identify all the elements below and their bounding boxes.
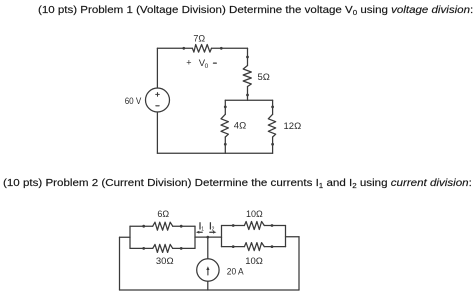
svg-text:10Ω: 10Ω: [245, 256, 263, 267]
wire: left lead into left block: [120, 236, 131, 238]
voltage source 60V circle: [146, 88, 170, 112]
node dot left block top-left: [142, 225, 145, 228]
node dot right block bottom-right: [271, 245, 274, 248]
wire: 12ohm branch bottom lead: [272, 137, 274, 153]
resistor R=6ohm zigzag: [153, 222, 173, 230]
resistor R=10ohm bottom zigzag: [244, 243, 264, 251]
wire: left block top edge right: [173, 225, 195, 227]
plus sign inside source: [157, 93, 159, 97]
current arrow I2 (right): [210, 231, 215, 233]
wire: left block right edge: [194, 226, 196, 248]
node dot 12ohm bottom: [271, 143, 274, 146]
node dot on top rail right of 7ohm: [220, 47, 223, 50]
wire: left block bottom edge left: [130, 247, 153, 249]
wire: top rail right segment: [212, 47, 248, 49]
resistor R=10ohm top zigzag: [244, 222, 264, 230]
wire: left block bottom edge right: [173, 247, 195, 249]
wire: right block top edge left: [222, 225, 245, 227]
wire: bottom rail: [157, 152, 272, 154]
node dot left block bottom-left: [142, 247, 145, 250]
current label I2 stroke: [209, 223, 211, 229]
wire: middle node horizontal: [195, 236, 222, 238]
svg-text:6Ω: 6Ω: [157, 209, 169, 219]
wire: right block bottom edge left: [222, 246, 245, 248]
svg-text:0: 0: [205, 63, 209, 70]
resistor R=5ohm zigzag: [243, 66, 251, 87]
svg-text:5Ω: 5Ω: [258, 72, 270, 83]
svg-text:60 V: 60 V: [125, 96, 142, 106]
node dot on right vertical: [246, 56, 249, 59]
wire: bottom rail: [120, 289, 300, 291]
current source 20A circle: [197, 259, 219, 281]
node dot on top rail left of 7ohm: [182, 47, 185, 50]
svg-text:4Ω: 4Ω: [234, 121, 246, 132]
wire: right vertical top (to 5ohm): [247, 48, 249, 65]
current source arrow (up): [207, 269, 209, 275]
svg-text:30Ω: 30Ω: [156, 256, 174, 267]
wire: right block right edge: [285, 226, 287, 247]
wire: right outer vertical: [298, 237, 300, 290]
node dot left block top-right: [180, 225, 183, 228]
wire: right lead out of right block: [286, 236, 300, 238]
wire: left vertical below source: [156, 112, 158, 153]
wire: right vertical below 5ohm to node: [247, 87, 249, 101]
wire: right block top edge right: [264, 225, 285, 227]
node dot right block top-left: [232, 224, 235, 227]
wire: left block left edge: [129, 226, 131, 248]
current arrow I1 (left): [198, 231, 203, 233]
wire: left block top edge left: [130, 225, 153, 227]
resistor R=30ohm zigzag: [153, 244, 173, 252]
svg-text:12Ω: 12Ω: [284, 121, 302, 132]
node dot 4ohm bottom: [224, 143, 227, 146]
wire: right block bottom edge right: [264, 246, 285, 248]
svg-text:20 A: 20 A: [227, 267, 244, 278]
wire: left vertical above source: [156, 48, 158, 88]
wire: current source bottom lead: [207, 281, 209, 290]
resistor R=7ohm zigzag: [192, 45, 211, 53]
svg-text:7Ω: 7Ω: [193, 34, 205, 44]
wire: 12ohm branch top lead: [272, 100, 274, 114]
header line problem 1: [38, 6, 473, 16]
resistor R=12ohm zigzag: [268, 114, 275, 137]
node dot left block bottom-right: [180, 247, 183, 250]
node dot above junction: [246, 94, 249, 97]
node dot right block bottom-left: [232, 245, 235, 248]
minus sign inside source: [156, 105, 159, 107]
node dot 4ohm top: [224, 106, 227, 109]
wire: top rail left segment: [157, 47, 192, 49]
wire: node horizontal (parallel combination top): [225, 99, 272, 101]
wire: current source top lead: [207, 237, 209, 259]
wire: left outer vertical: [119, 237, 121, 290]
svg-text:10Ω: 10Ω: [246, 209, 263, 219]
node dot 12ohm top: [271, 106, 274, 109]
svg-text:+: +: [186, 58, 191, 68]
current label I1 stroke: [199, 223, 201, 229]
wire: 4ohm branch top lead: [224, 100, 226, 114]
header line problem 2: [3, 179, 472, 189]
resistor R=4ohm zigzag: [221, 114, 228, 137]
node dot right block top-right: [271, 224, 274, 227]
wire: 4ohm branch bottom lead: [224, 137, 226, 153]
wire: right block left edge: [221, 226, 223, 247]
node dot at current source tap: [206, 236, 209, 239]
